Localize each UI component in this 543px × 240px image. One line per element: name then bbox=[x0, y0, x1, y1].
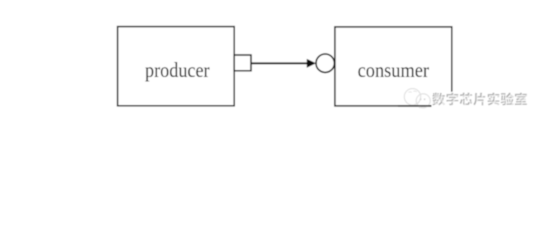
producer block P1 bbox=[118, 27, 235, 106]
watermark char 实 bbox=[488, 93, 501, 107]
watermark char 芯 bbox=[460, 93, 474, 106]
white patch erasing box corner under watermark bbox=[432, 92, 457, 109]
consumer box bottom edge over icon bbox=[398, 105, 436, 107]
watermark char 片 bbox=[473, 93, 486, 107]
wire producer to consumer bbox=[252, 62, 309, 64]
watermark char 室 bbox=[515, 93, 528, 106]
producer output port (square) bbox=[234, 55, 251, 71]
watermark char 验 bbox=[501, 93, 515, 107]
consumer input port (circle) bbox=[316, 54, 334, 72]
svg-text:producer: producer bbox=[145, 60, 210, 82]
watermark logo icon bbox=[404, 89, 430, 108]
svg-text:consumer: consumer bbox=[358, 59, 430, 82]
watermark char 数 bbox=[432, 93, 446, 107]
arrowhead bbox=[307, 59, 316, 68]
watermark char 字 bbox=[447, 93, 460, 107]
consumer block C1 bbox=[335, 27, 452, 106]
